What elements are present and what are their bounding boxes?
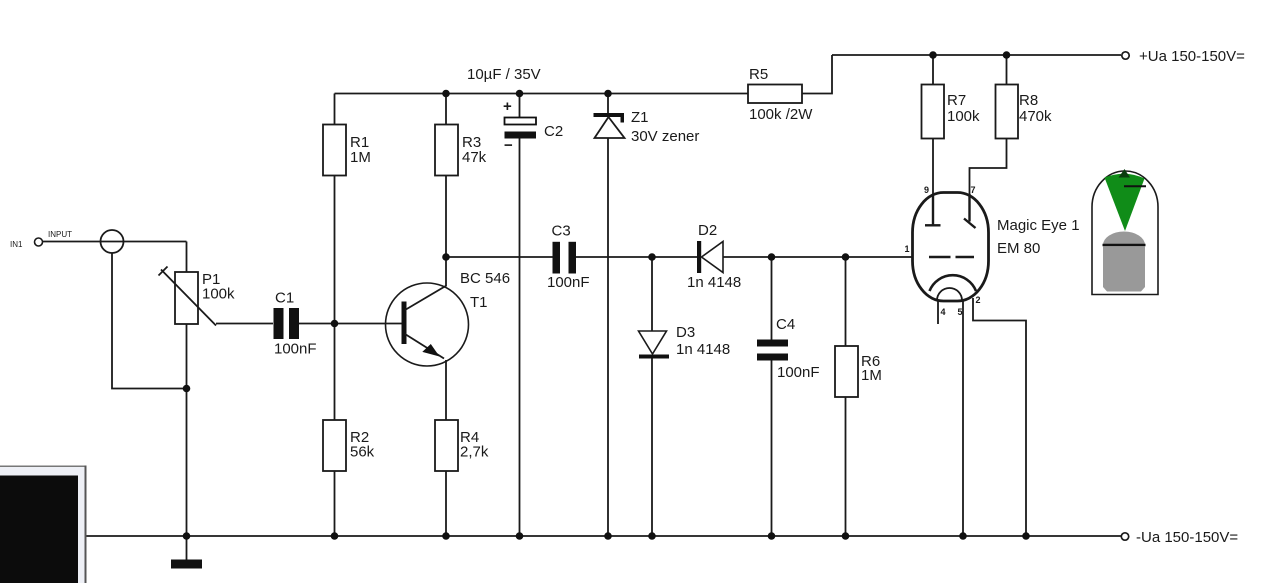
- wire bottom rail -Ua: [86, 535, 1121, 537]
- tube pin 7 electrode: [964, 194, 976, 228]
- svg-text:1M: 1M: [350, 149, 371, 166]
- svg-text:D2: D2: [698, 222, 717, 239]
- wire R3 top stub: [445, 94, 447, 125]
- wire C1 to base node: [299, 323, 402, 325]
- svg-text:C1: C1: [275, 290, 294, 307]
- resistor R1: [323, 125, 371, 176]
- svg-text:100k /2W: 100k /2W: [749, 106, 813, 123]
- wire R4 bottom: [445, 471, 447, 536]
- terminal +Ua: [1122, 48, 1245, 65]
- wire R8 top stub: [1006, 55, 1008, 85]
- svg-text:4: 4: [941, 307, 946, 317]
- svg-text:5: 5: [958, 307, 963, 317]
- svg-text:C3: C3: [552, 223, 571, 240]
- tube fluorescent screen arc: [930, 275, 977, 291]
- svg-text:100k: 100k: [202, 286, 235, 303]
- photo corner artifact: [0, 466, 87, 583]
- svg-text:9: 9: [924, 185, 929, 195]
- wire C2 top stub: [519, 94, 521, 118]
- terminal -Ua: [1121, 529, 1238, 546]
- wire R3 to collector node: [445, 176, 447, 258]
- resistor R5: [748, 66, 813, 123]
- wire R6 bottom to rail: [845, 397, 847, 536]
- wire emitter down to R4: [445, 360, 447, 420]
- wire input bypass left leg: [112, 253, 187, 389]
- svg-text:1M: 1M: [861, 367, 882, 384]
- svg-text:7: 7: [971, 185, 976, 195]
- svg-text:56k: 56k: [350, 444, 375, 461]
- transistor T1 BC546: [386, 270, 511, 366]
- wire Z1 bottom to rail: [607, 138, 609, 536]
- display green fan: [1105, 174, 1145, 231]
- svg-text:2: 2: [976, 295, 981, 305]
- resistor R2: [323, 420, 375, 471]
- svg-text:INPUT: INPUT: [48, 230, 72, 239]
- wire R1 to R2: [334, 176, 336, 421]
- svg-text:100nF: 100nF: [777, 364, 820, 381]
- diode D3: [639, 324, 731, 359]
- magic eye display graphic: [1092, 169, 1158, 295]
- wire tube pin 5 to rail: [962, 300, 964, 536]
- svg-text:2,7k: 2,7k: [460, 444, 489, 461]
- wire tube pin 4 stub: [937, 300, 939, 324]
- svg-text:30V zener: 30V zener: [631, 128, 699, 145]
- terminal IN1 input: [10, 230, 124, 253]
- svg-text:R7: R7: [947, 92, 966, 109]
- wire mid line C3 to D2: [576, 256, 697, 258]
- svg-text:470k: 470k: [1019, 108, 1052, 125]
- wire C4 bottom to rail: [771, 361, 773, 537]
- resistor R3: [435, 125, 487, 176]
- wire C4 top: [771, 257, 773, 340]
- svg-text:T1: T1: [470, 294, 488, 311]
- svg-text:−: −: [504, 137, 513, 154]
- svg-text:1: 1: [905, 244, 910, 254]
- wire R5 to top rail corner: [802, 55, 832, 94]
- svg-text:100k: 100k: [947, 108, 980, 125]
- capacitor C4: [757, 316, 820, 381]
- wire D3 top: [651, 257, 653, 331]
- svg-text:Z1: Z1: [631, 109, 649, 126]
- wire input to junction circle: [43, 241, 187, 243]
- svg-text:IN1: IN1: [10, 240, 23, 249]
- svg-text:BC 546: BC 546: [460, 270, 510, 287]
- resistor R8: [996, 85, 1053, 139]
- wire R7 top stub: [932, 55, 934, 85]
- magic eye tube EM80: [905, 185, 1080, 317]
- svg-text:C4: C4: [776, 316, 795, 333]
- wire collector up to mid line: [445, 257, 447, 286]
- svg-text:100nF: 100nF: [274, 341, 317, 358]
- wire C2 bottom to rail: [519, 139, 521, 537]
- wire Z1 top stub: [607, 94, 609, 114]
- svg-text:-Ua 150-150V=: -Ua 150-150V=: [1136, 529, 1238, 546]
- resistor R4: [435, 420, 489, 471]
- svg-text:EM 80: EM 80: [997, 240, 1040, 257]
- svg-text:R8: R8: [1019, 92, 1038, 109]
- wire mid line D2 to tube pin 1: [723, 256, 913, 258]
- wire R2 bottom: [334, 471, 336, 536]
- svg-text:47k: 47k: [462, 149, 487, 166]
- svg-text:D3: D3: [676, 324, 695, 341]
- resistor R6: [835, 346, 882, 397]
- wire R8 to tube pin 7: [970, 139, 1007, 214]
- potentiometer P1: [159, 267, 236, 326]
- wire D3 bottom to rail: [651, 357, 653, 536]
- ground symbol: [171, 560, 202, 569]
- wire mid line collector to C3: [446, 256, 553, 258]
- zener diode Z1: [594, 109, 700, 145]
- svg-text:10µF / 35V: 10µF / 35V: [467, 66, 541, 83]
- svg-text:Magic Eye 1: Magic Eye 1: [997, 217, 1080, 234]
- capacitor C2 electrolytic: [503, 98, 563, 154]
- diode D2: [687, 222, 741, 291]
- wire R6 top: [845, 257, 847, 346]
- svg-text:+Ua 150-150V=: +Ua 150-150V=: [1139, 48, 1245, 65]
- wire P1 bottom to ground node: [186, 324, 188, 536]
- tube pin 1 dashed grid: [929, 256, 974, 258]
- wire upper supply line: [335, 93, 749, 95]
- svg-text:100nF: 100nF: [547, 274, 590, 291]
- wire ground stem: [186, 536, 188, 560]
- tube pin 9 electrode: [925, 194, 941, 225]
- wire R7 to tube pin 9: [932, 139, 934, 197]
- tube cathode arc: [937, 288, 962, 301]
- wire R1 top stub: [334, 94, 336, 125]
- display gray cathode: [1103, 232, 1145, 246]
- wire top rail +Ua: [832, 54, 1121, 56]
- wire P1 wiper to C1: [216, 323, 273, 325]
- capacitor C1: [274, 290, 317, 358]
- svg-text:1n 4148: 1n 4148: [687, 274, 741, 291]
- resistor R7: [922, 85, 981, 139]
- svg-text:C2: C2: [544, 123, 563, 140]
- wire junction circle to P1 top: [186, 242, 188, 273]
- wire tube pin 2 to rail: [973, 298, 1026, 536]
- svg-text:+: +: [503, 98, 512, 115]
- svg-text:1n 4148: 1n 4148: [676, 341, 730, 358]
- capacitor C3: [547, 223, 590, 292]
- svg-text:R5: R5: [749, 66, 768, 83]
